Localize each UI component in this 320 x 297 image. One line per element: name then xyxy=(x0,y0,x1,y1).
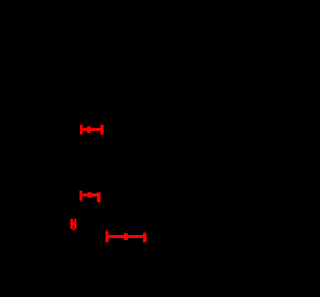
F4 pin 2 end cap xyxy=(143,233,147,242)
F1 pin 2 end cap xyxy=(101,125,104,135)
schematic canvas xyxy=(0,0,164,297)
F3 body box xyxy=(73,222,75,225)
fuse F3 (small) xyxy=(70,219,76,231)
F2 pin 2 end cap xyxy=(97,192,101,202)
F1 body wire xyxy=(83,128,101,131)
fuse F4 xyxy=(106,230,147,243)
F2 pin 1 end cap xyxy=(80,191,83,201)
F1 pin 1 end cap xyxy=(80,125,83,135)
fuse F2 xyxy=(80,191,101,203)
F3 pin 2 end cap xyxy=(74,219,76,229)
F1 pin 2 wire stub xyxy=(101,124,103,126)
F2 pin 1 wire stub xyxy=(81,200,83,202)
F1 pin 1 wire stub xyxy=(82,124,83,126)
F4 body wire xyxy=(109,235,144,238)
F4 pin 2 wire stub xyxy=(144,232,146,234)
F4 body box xyxy=(124,233,128,240)
F4 pin 1 wire stub xyxy=(106,230,107,232)
F2 pin 2 wire stub xyxy=(98,202,100,203)
F3 body box lower nub xyxy=(73,229,75,231)
F3 pin 1 end cap xyxy=(70,219,73,229)
fuse F1 xyxy=(80,124,104,135)
F4 pin 1 end cap xyxy=(106,232,109,243)
F2 body box xyxy=(88,192,92,197)
F2 body wire xyxy=(83,193,98,196)
F1 body box xyxy=(87,126,91,132)
